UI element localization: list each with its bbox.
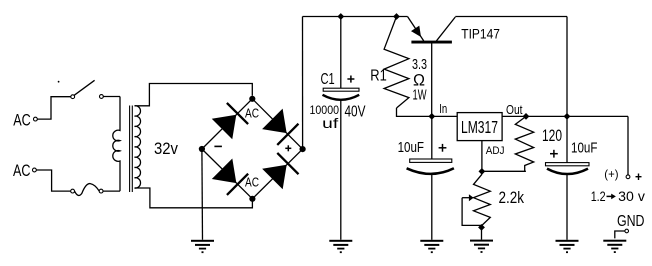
svg-text:R1: R1	[370, 68, 387, 85]
svg-text:1W: 1W	[413, 88, 427, 104]
wire bridge edge bottom-left	[202, 149, 253, 199]
wire fuse to transformer	[103, 190, 120, 192]
node pot bottom	[478, 224, 485, 231]
svg-text:C1: C1	[321, 71, 335, 88]
svg-text:AC: AC	[245, 174, 259, 189]
node In junction	[428, 113, 435, 120]
node ADJ junction	[478, 168, 485, 175]
label 1.2-30v	[591, 189, 645, 204]
switch S1	[58, 80, 104, 98]
node Out junction	[523, 113, 530, 120]
svg-text:ADJ: ADJ	[486, 145, 505, 157]
svg-text:30 v: 30 v	[618, 189, 645, 204]
wire bridge edge bottom-right	[252, 149, 302, 199]
label uf	[322, 116, 338, 131]
svg-text:uf: uf	[322, 116, 338, 131]
svg-text:10uF: 10uF	[398, 140, 424, 156]
regulator U1 LM317 box	[457, 113, 502, 141]
svg-text:TIP147: TIP147	[461, 26, 500, 41]
plus output	[636, 174, 642, 181]
svg-text:120: 120	[542, 127, 562, 145]
label 1W	[413, 88, 427, 104]
ground (C1)	[329, 240, 352, 253]
transistor Q1 base bar	[411, 41, 452, 44]
potentiometer R3 2.2k	[474, 174, 491, 225]
output terminal (+)	[604, 167, 630, 181]
svg-text:40V: 40V	[345, 104, 366, 121]
svg-text:AC: AC	[245, 105, 259, 120]
resistor R2 120	[515, 116, 533, 171]
potentiometer R3 wiper arrow	[462, 194, 482, 225]
wire top rail	[303, 16, 568, 18]
diode D3 (minus to bottom AC)	[211, 158, 248, 195]
wire switch to transformer	[103, 96, 120, 98]
diode D1 (minus to top AC)	[211, 103, 248, 140]
svg-text:2.2k: 2.2k	[499, 189, 525, 207]
label 120	[542, 127, 562, 145]
wire plus node to top rail	[302, 17, 304, 150]
ground (output GND)	[603, 240, 626, 253]
svg-text:GND: GND	[617, 213, 645, 230]
wire C2 top lead	[431, 116, 433, 159]
svg-text:1.2: 1.2	[591, 189, 606, 204]
transformer T1 core	[130, 106, 133, 193]
capacitor C2 plates	[407, 159, 454, 174]
ground (bridge minus)	[191, 240, 214, 253]
wire C1 top lead	[340, 17, 342, 89]
svg-text:(+): (+)	[604, 167, 618, 181]
resistor R1	[384, 17, 409, 109]
wire output lead	[627, 116, 629, 174]
label TIP147	[461, 26, 500, 41]
label 2.2k	[499, 189, 525, 207]
wire AC top to switch	[37, 97, 70, 119]
transformer T1 secondary winding	[135, 106, 141, 188]
ground (C2)	[420, 240, 443, 253]
wire C1 bottom lead	[340, 100, 342, 240]
wire C3 bottom lead	[566, 174, 568, 240]
ground (pot)	[470, 240, 493, 253]
svg-text:10000: 10000	[310, 103, 340, 117]
plus C2	[439, 144, 447, 152]
node R1 top	[393, 13, 400, 20]
label 3.3	[412, 57, 427, 73]
plus C3	[550, 150, 558, 158]
wire bridge edge top-left	[202, 99, 252, 149]
node right cap junction	[564, 113, 571, 120]
AC input terminal (bottom)	[13, 162, 36, 180]
label 10uF right	[571, 140, 597, 156]
wire C3 top lead	[566, 116, 568, 162]
svg-text:AC: AC	[13, 162, 31, 180]
transformer T1 primary winding	[113, 97, 120, 192]
node C1 top	[337, 13, 344, 20]
transistor Q1 emitter	[408, 17, 424, 42]
capacitor C3 plates	[546, 163, 590, 174]
transistor Q1 base lead	[431, 43, 433, 116]
GND terminal	[615, 229, 629, 238]
node plus	[285, 145, 305, 152]
svg-text:32v: 32v	[154, 140, 179, 158]
transistor Q1 collector	[436, 17, 455, 41]
svg-text:Out: Out	[506, 102, 523, 117]
wire pot to ground	[481, 227, 483, 239]
AC input terminal (top)	[13, 112, 37, 130]
svg-text:AC: AC	[13, 112, 31, 130]
wire bridge edge top-right	[252, 99, 302, 149]
ground (C3)	[556, 240, 579, 253]
wire minus node to ground	[201, 149, 204, 240]
label GND	[617, 213, 645, 230]
wire C2 bottom lead	[431, 174, 433, 240]
label In	[439, 102, 447, 116]
label 10uF left	[398, 140, 424, 156]
svg-text:10uF: 10uF	[571, 140, 597, 156]
wire AC bottom to fuse	[36, 170, 70, 191]
label 10000	[310, 103, 340, 117]
wire ADJ lead	[481, 141, 483, 172]
wire Out line	[502, 115, 628, 117]
node minus	[199, 146, 222, 152]
fuse F1	[71, 184, 103, 196]
node AC top	[245, 96, 259, 121]
diode D2 (top AC to plus)	[262, 108, 299, 145]
wire ADJ to R2 bottom	[482, 170, 526, 172]
wire secondary bottom to bridge	[135, 188, 253, 208]
label Out	[506, 102, 523, 117]
label 40V	[345, 104, 366, 121]
wire secondary top to bridge	[135, 84, 253, 106]
plus C1	[347, 76, 354, 83]
label ADJ	[486, 145, 505, 157]
svg-text:In: In	[439, 102, 447, 116]
wire top rail down to out line	[566, 17, 568, 117]
diode D4 (bottom AC to plus)	[262, 153, 299, 190]
label C1	[321, 71, 335, 88]
label 32v	[154, 140, 179, 158]
label R1	[370, 68, 387, 85]
label ohm	[413, 71, 425, 90]
wire R1 bottom to In node	[397, 108, 458, 116]
svg-text:LM317: LM317	[461, 117, 498, 137]
capacitor C1 plates	[323, 88, 360, 100]
node AC bottom	[245, 174, 259, 202]
